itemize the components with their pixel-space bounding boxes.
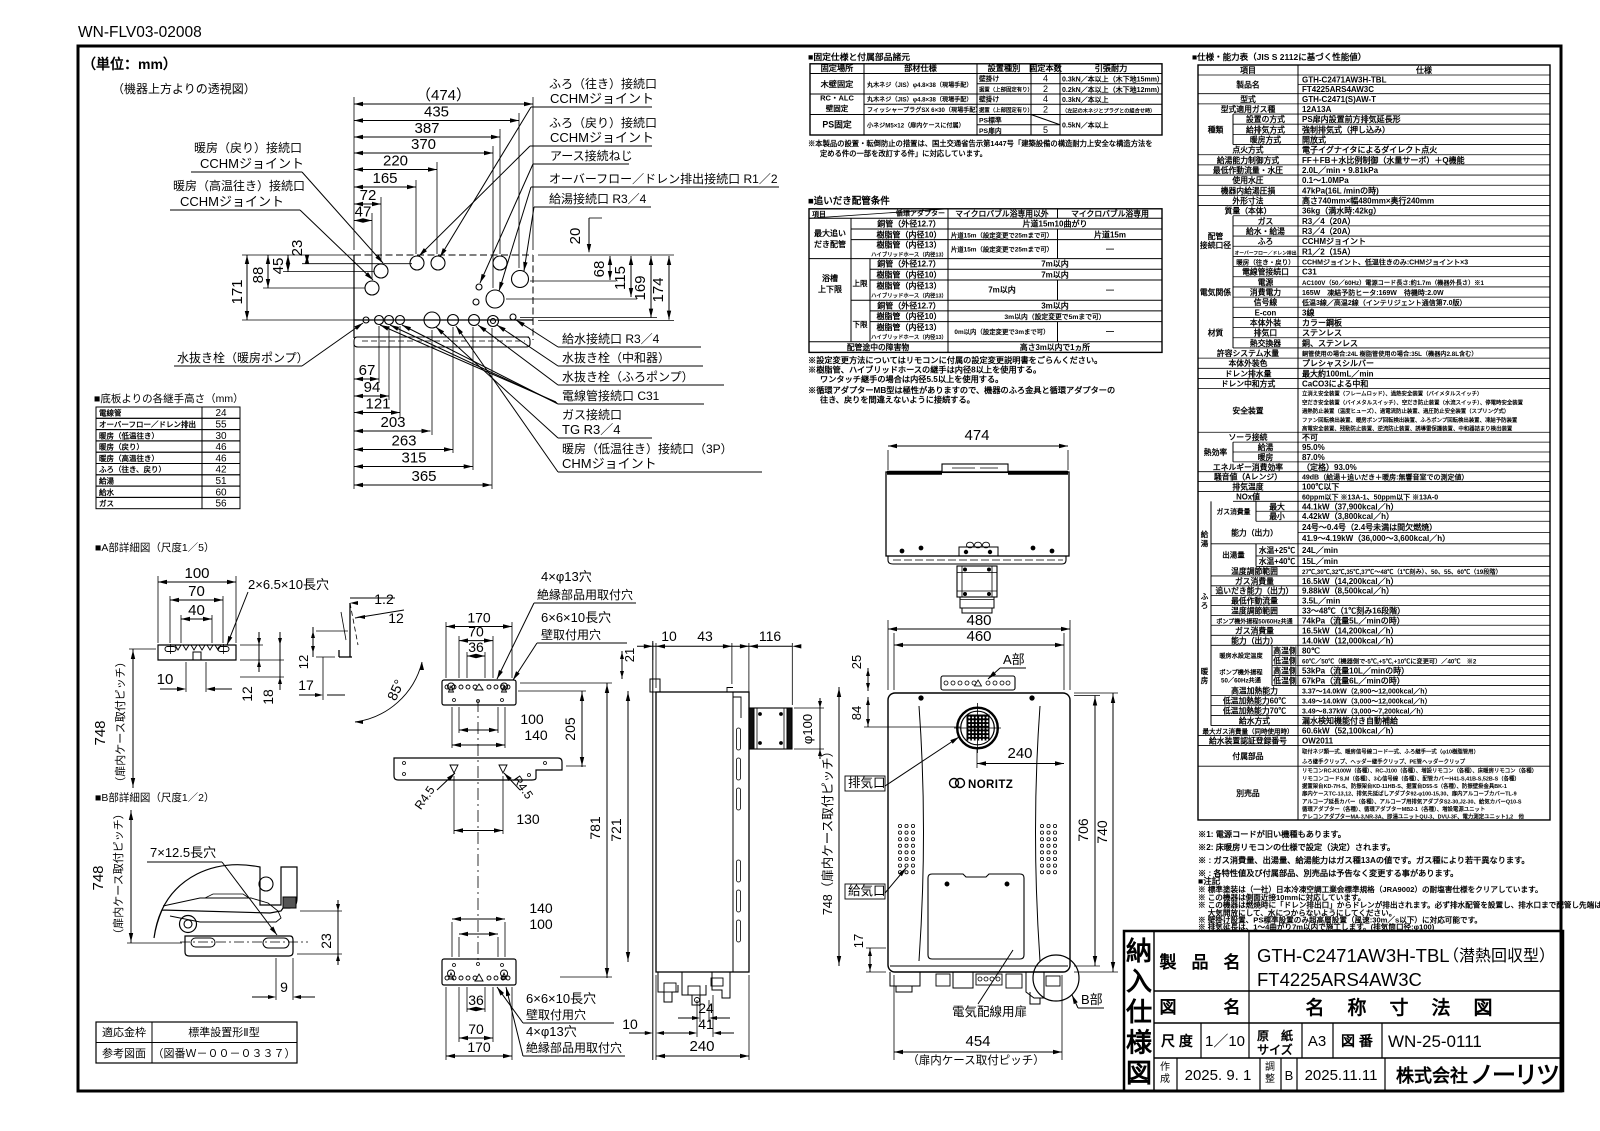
svg-text:種類: 種類 [1208,124,1224,134]
B-part centerline dashed [180,941,308,943]
svg-text:80℃: 80℃ [1302,646,1320,655]
svg-text:（単位：mm）: （単位：mm） [82,56,177,72]
svg-text:56: 56 [215,499,227,510]
svg-text:扉内ケースTC-13,12、排気先延ばしアダプタ92-φ10: 扉内ケースTC-13,12、排気先延ばしアダプタ92-φ100-15,30、扉内… [1302,790,1517,798]
svg-text:240: 240 [1007,745,1032,762]
svg-text:尺 度: 尺 度 [1161,1033,1194,1049]
svg-text:ガス: ガス [99,498,114,508]
svg-text:※ : 各特性値及び付属部品、別売品は予告なく変更する事があ: ※ : 各特性値及び付属部品、別売品は予告なく変更する事があります。 [1198,868,1458,878]
front view crease right [1036,706,1041,961]
leader low-temp port [456,326,558,472]
svg-text:7m以内: 7m以内 [988,284,1016,294]
front view exhaust fan [957,708,998,749]
svg-text:給湯: 給湯 [1258,442,1274,452]
height table [96,407,240,510]
B-part dim 9 [275,958,277,1000]
svg-text:70: 70 [468,1021,484,1037]
svg-text:暖房水設定温度: 暖房水設定温度 [1219,652,1263,660]
svg-text:748（扉内ケース取付ピッチ）: 748（扉内ケース取付ピッチ） [821,745,835,915]
dim 24 side [678,1017,696,1019]
svg-text:樹脂管（内径13）: 樹脂管（内径13） [877,240,942,250]
svg-text:電気配線用扉: 電気配線用扉 [952,1004,1027,1019]
leader 6x6x10 upper [513,643,537,680]
svg-text:10: 10 [622,1016,638,1032]
svg-text:16.5kW（14,200kcal／h）: 16.5kW（14,200kcal／h） [1302,576,1399,586]
upper bracket dims extensions [445,622,447,678]
svg-text:片道15m10曲がり: 片道15m10曲がり [1023,219,1088,229]
svg-text:最大追い: 最大追い [814,228,846,238]
svg-text:240: 240 [689,1038,714,1055]
B-part fin outline [154,865,297,938]
svg-text:748: 748 [92,720,109,745]
svg-text:参考図面: 参考図面 [102,1046,146,1060]
svg-text:A3: A3 [1308,1033,1326,1050]
front view unit outline [888,693,1070,972]
dim 205 vertical [581,691,583,767]
svg-text:上下限: 上下限 [818,284,842,294]
svg-text:絶縁部品用取付穴: 絶縁部品用取付穴 [537,587,633,602]
svg-text:最低作動流量: 最低作動流量 [1231,596,1278,606]
port hot water outlet (520,279) [512,271,529,288]
svg-text:給水装置認証登録番号: 給水装置認証登録番号 [1209,736,1287,746]
B-part base slots [191,938,215,947]
svg-text:25: 25 [849,655,864,669]
svg-text:36kg（満水時:42kg）: 36kg（満水時:42kg） [1302,206,1381,216]
svg-text:ドレン中和方式: ドレン中和方式 [1221,379,1276,389]
svg-text:68: 68 [591,261,608,278]
svg-text:140: 140 [524,727,548,743]
svg-text:40: 40 [188,602,205,619]
svg-text:ハイブリッドホース（内径13）: ハイブリッドホース（内径13） [871,333,947,341]
svg-text:GTH-C2471AW3H-TBL: GTH-C2471AW3H-TBL [1302,76,1387,85]
svg-text:暖房（往き・戻り）: 暖房（往き・戻り） [1236,258,1295,267]
svg-text:95.0%: 95.0% [1302,443,1325,452]
dim 84 front [867,697,869,727]
dimension 387 [354,120,500,139]
dim 480 front [887,620,889,690]
svg-text:能力（出力）: 能力（出力） [1231,635,1278,645]
side view bottom pipes [658,972,730,1005]
svg-text:24: 24 [698,1000,714,1016]
svg-text:WN-FLV03-02008: WN-FLV03-02008 [78,24,202,41]
upper bracket keyholes [448,683,455,692]
leader neutralizer [497,325,558,366]
svg-text:据置架台KD-7H-S、防振架台KD-11HB-S、据置台D: 据置架台KD-7H-S、防振架台KD-11HB-S、据置台D55-S（各種）、防… [1302,782,1507,790]
svg-text:■追いだき配管条件: ■追いだき配管条件 [808,195,890,207]
svg-text:100: 100 [529,916,553,932]
L-angle dim 1.2 [341,612,346,640]
svg-text:銅、ステンレス: 銅、ステンレス [1302,338,1358,348]
svg-text:電線管接続口 C31: 電線管接続口 C31 [562,388,660,403]
svg-text:42: 42 [215,465,227,476]
dim 36 upper [467,639,485,658]
svg-text:様: 様 [1126,1028,1153,1058]
svg-text:60.6kW（52,100kcal／h）: 60.6kW（52,100kcal／h） [1302,726,1399,736]
svg-text:23: 23 [289,240,306,257]
svg-text:最大: 最大 [1269,501,1285,511]
top view unit box [886,472,1069,556]
svg-text:アース接続ねじ: アース接続ねじ [550,148,633,163]
svg-text:項目: 項目 [812,209,826,218]
dim 70 lower [459,1021,493,1040]
svg-text:0m以内（設定変更で3mまで可）: 0m以内（設定変更で3mまで可） [954,327,1049,336]
A-part leader [988,668,1000,679]
svg-text:R3／4（20A）: R3／4（20A） [1302,216,1355,226]
svg-text:排気口: 排気口 [848,775,886,790]
svg-text:18: 18 [260,689,276,705]
dimension 220 [354,153,437,172]
svg-text:型式適用ガス種: 型式適用ガス種 [1221,104,1276,114]
svg-text:5: 5 [1043,125,1048,135]
port (474,320) [469,315,480,326]
svg-text:下限: 下限 [853,320,868,329]
svg-text:A部: A部 [1003,652,1025,667]
dim 130 [453,776,455,834]
svg-text:絶縁部品用取付穴: 絶縁部品用取付穴 [526,1040,622,1055]
svg-text:往き、戻りを間違えないように接続する。: 往き、戻りを間違えないように接続する。 [820,395,975,405]
svg-text:品: 品 [1192,953,1209,972]
B-part grommet circle [180,916,197,933]
tray dashed centerlines [362,340,525,342]
svg-text:ガス: ガス [1258,216,1274,226]
svg-text:10: 10 [661,628,677,644]
svg-text:熱効率: 熱効率 [1204,447,1228,457]
svg-text:60: 60 [215,487,227,498]
svg-text:壁取付用穴: 壁取付用穴 [526,1007,586,1022]
svg-text:100℃以下: 100℃以下 [1302,483,1339,492]
svg-text:接続口径: 接続口径 [1200,240,1231,250]
svg-text:（扉内ケース取付ピッチ）: （扉内ケース取付ピッチ） [111,808,125,939]
dimension 72 [354,187,381,206]
dim 240 front [976,748,978,768]
dim 41 side [675,1032,693,1034]
svg-text:205: 205 [562,717,578,741]
svg-text:67: 67 [359,362,376,379]
svg-text:暖房（高温往き）: 暖房（高温往き） [99,453,159,463]
B-part slot leader [222,862,277,935]
svg-text:74kPa（流量5L／minの時）: 74kPa（流量5L／minの時） [1302,615,1405,625]
product name row [1248,931,1250,1023]
svg-text:E-con: E-con [1255,308,1277,317]
L-angle dim 12 top [355,610,404,618]
leader 4xphi13 lower [506,987,523,1056]
svg-text:定める件の一部を改訂する件」に対応しています。: 定める件の一部を改訂する件」に対応しています。 [819,149,987,158]
svg-text:最小: 最小 [1269,511,1285,521]
svg-text:36: 36 [468,992,484,1008]
top view unit front edge [354,319,533,321]
svg-text:丸木ネジ（JIS）φ4.8×38（現場手配）: 丸木ネジ（JIS）φ4.8×38（現場手配） [866,81,972,89]
svg-text:固定本数: 固定本数 [1029,63,1063,73]
svg-text:マイクロバブル浴専用以外: マイクロバブル浴専用以外 [955,208,1049,218]
svg-text:24号～0.4号（2.4号未満は間欠燃焼）: 24号～0.4号（2.4号未満は間欠燃焼） [1302,522,1437,532]
svg-text:203: 203 [380,414,405,431]
svg-text:FF＋FB＋水比例制御（水量サーボ）＋Q機能: FF＋FB＋水比例制御（水量サーボ）＋Q機能 [1302,155,1465,165]
svg-text:配管途中の障害物: 配管途中の障害物 [847,342,910,352]
svg-text:33～48℃（1℃刻み16段階）: 33～48℃（1℃刻み16段階） [1302,605,1405,615]
svg-text:不可: 不可 [1302,433,1318,442]
svg-text:15L／min: 15L／min [1302,556,1338,566]
svg-text:47kPa(16L /minの時): 47kPa(16L /minの時) [1302,185,1379,195]
svg-text:CCHMジョイント: CCHMジョイント [180,194,284,209]
svg-text:作: 作 [1160,1061,1170,1073]
svg-text:CCHMジョイント: CCHMジョイント [550,91,654,106]
dimension 94 [354,379,389,398]
svg-text:100: 100 [184,565,209,582]
svg-text:（扉内ケース取付ピッチ）: （扉内ケース取付ピッチ） [907,1053,1044,1067]
svg-text:3m以内: 3m以内 [1041,300,1069,310]
title block frame [1124,931,1563,1091]
svg-text:低温側: 低温側 [1272,675,1297,685]
svg-text:別売品: 別売品 [1235,788,1260,798]
dim 100 upper [459,711,544,732]
NORITZ logo [950,779,1014,792]
svg-text:銅管（外径12.7）: 銅管（外径12.7） [877,300,941,310]
dims 36/70/170 below lower bracket [466,987,468,1012]
svg-text:電気関係: 電気関係 [1200,287,1231,297]
L-angle dim 17 [322,657,324,700]
svg-text:435: 435 [424,104,449,121]
extension lines right dims [538,254,674,256]
svg-text:入: 入 [1126,967,1152,997]
svg-text:高さ740mm×幅480mm×奥行240mm: 高さ740mm×幅480mm×奥行240mm [1302,195,1434,205]
svg-text:315: 315 [401,450,426,467]
svg-text:ハイブリッドホース（内径13）: ハイブリッドホース（内径13） [871,291,947,299]
svg-text:23: 23 [318,933,334,949]
svg-text:174: 174 [650,277,667,302]
svg-text:ふろ継手クリップ、ヘッダー継手クリップ、PE管ヘッダークリッ: ふろ継手クリップ、ヘッダー継手クリップ、PE管ヘッダークリップ [1302,758,1466,766]
spec table footnotes [1198,829,1600,932]
svg-text:許容システム水量: 許容システム水量 [1217,348,1279,358]
A-part dim 12/18 right [240,644,263,646]
port water supply big (495,299) [486,290,504,308]
svg-text:項目: 項目 [1240,66,1256,75]
svg-text:過熱防止装置（温度ヒューズ）、過電流防止装置、過圧防止安全装: 過熱防止装置（温度ヒューズ）、過電流防止装置、過圧防止安全装置（スプリング式） [1301,407,1509,415]
dim 25 front [867,668,869,691]
svg-text:88: 88 [250,267,267,284]
svg-text:調: 調 [1265,1060,1275,1073]
title block row lines [1154,990,1563,992]
svg-text:ワンタッチ継手の場合は内径5.5以上を使用する。: ワンタッチ継手の場合は内径5.5以上を使用する。 [820,374,1003,384]
leader 4xphi13 upper [497,603,534,679]
svg-text:暖房（高温往き）接続口: 暖房（高温往き）接続口 [173,178,305,193]
dimension 67 [354,362,379,381]
svg-text:外形寸法: 外形寸法 [1231,195,1263,205]
svg-text:46: 46 [215,442,227,453]
side view back rail profile [732,692,734,972]
leader earth screw [480,164,546,283]
dimension 171 [229,255,249,320]
svg-text:ファン回転検出装置、暖房ポンプ回転検出装置、ふろポンプ回転検: ファン回転検出装置、暖房ポンプ回転検出装置、ふろポンプ回転検出装置、凍結予防装置 [1302,416,1518,424]
leader water supply [516,320,558,347]
dim 36 lower [467,992,485,1011]
svg-text:温度調節範囲: 温度調節範囲 [1231,605,1278,615]
svg-text:36: 36 [468,639,484,655]
svg-text:高温加熱能力: 高温加熱能力 [1231,685,1278,695]
svg-text:固定場所: 固定場所 [821,63,855,73]
dim 140 upper [452,727,548,747]
svg-text:41: 41 [698,1016,714,1032]
svg-text:材質: 材質 [1207,328,1224,338]
svg-text:電線管接続口: 電線管接続口 [1242,267,1289,277]
svg-text:116: 116 [759,628,782,644]
svg-text:名: 名 [1224,952,1241,972]
electrical door [928,874,1024,959]
leader overflow [499,187,546,291]
svg-text:454: 454 [965,1033,990,1050]
svg-text:12: 12 [296,655,311,669]
R4.5 right leader [504,773,520,790]
svg-text:立消え安全装置（フレームロッド）、過熱安全装置（バイメタルス: 立消え安全装置（フレームロッド）、過熱安全装置（バイメタルスイッチ） [1302,390,1482,398]
date row [1176,1058,1178,1091]
svg-text:水温+25℃: 水温+25℃ [1259,545,1296,555]
A-part bracket body [158,645,236,660]
svg-text:※循環アダプターMB型は極性がありますので、機器のふろ金具と: ※循環アダプターMB型は極性がありますので、機器のふろ金具と循環アダプターの [808,385,1115,395]
A-part dim 10 [185,662,187,692]
svg-text:CCHMジョイント: CCHMジョイント [550,130,654,145]
leader bath pump plug [478,325,558,385]
port heating return CCHM (381,271) [374,264,388,278]
svg-text:低温加熱能力60℃: 低温加熱能力60℃ [1222,695,1286,705]
svg-text:高温側: 高温側 [1273,645,1297,655]
svg-text:銅管使用の場合:24L 樹脂管使用の場合:35L（機器内2.: 銅管使用の場合:24L 樹脂管使用の場合:35L（機器内2.8L含む） [1302,350,1478,358]
dim 70 upper [459,624,493,643]
svg-text:20: 20 [567,228,584,245]
svg-text:■仕様・能力表（JIS S 2112に基づく性能値）: ■仕様・能力表（JIS S 2112に基づく性能値） [1192,52,1366,62]
top view dim 474 [887,450,889,470]
top view flange [888,556,1066,564]
svg-text:―: ― [1106,285,1114,294]
svg-text:―: ― [1106,245,1114,254]
dim 460 [894,628,1064,647]
leader bath return [419,146,546,256]
svg-text:マイクロバブル浴専用: マイクロバブル浴専用 [1071,208,1149,218]
svg-text:0.5kN／本以上: 0.5kN／本以上 [1062,121,1109,130]
svg-text:60ppm以下 ※13A-1、50ppm以下 ※13A-0: 60ppm以下 ※13A-1、50ppm以下 ※13A-0 [1302,493,1438,501]
dim 706 front [1074,695,1100,697]
svg-text:給水接続口 R3／4: 給水接続口 R3／4 [562,331,660,346]
svg-text:CCHMジョイント: CCHMジョイント [200,156,304,171]
svg-text:■B部詳細図（尺度1／2）: ■B部詳細図（尺度1／2） [95,791,215,804]
svg-text:41.9～4.19kW（36,000～3,600kcal／h: 41.9～4.19kW（36,000～3,600kcal／h） [1302,533,1450,543]
dimension 45 [270,255,290,274]
svg-text:47: 47 [355,204,372,221]
svg-text:50／60Hz共通: 50／60Hz共通 [1221,676,1262,684]
svg-text:壁掛け: 壁掛け [979,95,1000,104]
svg-text:（左記の木ネジとプラグとの組合せ時）: （左記の木ネジとプラグとの組合せ時） [1062,107,1155,115]
dim 240 side [656,1038,749,1058]
L-angle vertical leg [349,603,351,657]
A-part dim 40 [181,602,212,621]
dimension 47 [354,204,372,223]
gas port (432,320) [424,312,440,328]
svg-text:84: 84 [849,706,864,720]
svg-text:温度調節範囲: 温度調節範囲 [1231,566,1278,576]
dim 480 [888,612,1070,631]
svg-text:給湯接続口 R3／4: 給湯接続口 R3／4 [549,191,647,206]
svg-text:94: 94 [364,379,381,396]
svg-text:銅管（外径12.7）: 銅管（外径12.7） [877,259,941,269]
svg-text:給水方式: 給水方式 [1239,716,1270,726]
side view unit body [656,692,749,972]
dimension (474) [354,87,533,106]
svg-text:115: 115 [612,266,629,290]
svg-text:70: 70 [468,624,484,640]
svg-text:壁固定: 壁固定 [826,103,849,113]
svg-text:■A部詳細図（尺度1／5）: ■A部詳細図（尺度1／5） [95,541,215,554]
svg-text:樹脂管（内径10）: 樹脂管（内径10） [877,269,942,279]
svg-text:2: 2 [1043,105,1048,115]
svg-text:―: ― [1106,327,1114,336]
upper hanger bracket body [442,680,516,705]
svg-text:追いだき能力（出力）: 追いだき能力（出力） [1216,586,1294,596]
svg-text:アルコーブ延長カバー（各種）、アルコーブ用排気アダプタS2-: アルコーブ延長カバー（各種）、アルコーブ用排気アダプタS2-30,J2-30、給… [1302,797,1522,805]
svg-text:※樹脂管、ハイブリッドホースの継手は内径8以上を使用する。: ※樹脂管、ハイブリッドホースの継手は内径8以上を使用する。 [808,365,1041,375]
svg-text:低温側: 低温側 [1272,655,1297,665]
side view top bracket tab [650,679,660,692]
svg-text:安全装置: 安全装置 [1232,405,1263,415]
dim 454 [894,1033,1062,1054]
svg-text:配管: 配管 [1208,231,1224,241]
svg-text:ソーラ接続: ソーラ接続 [1229,432,1268,442]
svg-text:木壁固定: 木壁固定 [820,79,855,89]
svg-text:121: 121 [365,396,390,413]
dimension 174 [650,256,671,320]
svg-text:暖房方式: 暖房方式 [1250,134,1281,144]
svg-text:※本製品の設置・転倒防止の措置は、国土交通省告示第1447号: ※本製品の設置・転倒防止の措置は、国土交通省告示第1447号「建築設備の構造耐力… [808,139,1153,148]
svg-text:本体外装色: 本体外装色 [1229,358,1268,368]
svg-text:ガス消費量: ガス消費量 [1235,576,1274,586]
B-part circle [1033,955,1079,1001]
svg-text:信号線: 信号線 [1254,297,1278,307]
svg-text:熱交換器: 熱交換器 [1250,338,1281,348]
svg-text:140: 140 [529,900,553,916]
svg-text:60℃／50℃（機器側で-5℃,+5℃,+10℃に変更可）／: 60℃／50℃（機器側で-5℃,+5℃,+10℃に変更可）／40℃ ※2 [1302,657,1477,665]
svg-text:オーバーフロー／ドレン排出: オーバーフロー／ドレン排出 [1234,249,1296,256]
svg-text:排気温度: 排気温度 [1232,482,1263,492]
svg-text:0.1～1.0MPa: 0.1～1.0MPa [1302,176,1349,185]
top view exhaust collar [957,566,997,597]
svg-text:9: 9 [280,979,288,995]
svg-text:水温+40℃: 水温+40℃ [1259,556,1296,566]
leader bath supply [440,107,546,257]
svg-text:能力（出力）: 能力（出力） [1231,528,1278,538]
svg-text:ふ: ふ [1201,592,1209,601]
svg-text:3線: 3線 [1302,307,1314,317]
svg-text:取付ネジ類一式、暖房信号線コード一式、ふろ継手一式（φ10樹: 取付ネジ類一式、暖房信号線コード一式、ふろ継手一式（φ10樹脂管用） [1302,747,1479,755]
svg-text:名 称 寸 法 図: 名 称 寸 法 図 [1305,996,1494,1019]
svg-text:10: 10 [157,671,174,688]
phi100 dim [794,707,824,709]
svg-text:21: 21 [622,648,637,662]
svg-text:本体外装: 本体外装 [1250,318,1281,328]
svg-text:テレコンアダプターMA-3,NR-3A、即湯ユニットQU-3: テレコンアダプターMA-3,NR-3A、即湯ユニットQU-3、DVU-3F、電力… [1302,813,1525,821]
svg-text:原 紙: 原 紙 [1257,1028,1293,1043]
svg-text:12A13A: 12A13A [1302,105,1332,114]
svg-text:出湯量: 出湯量 [1222,550,1245,560]
svg-text:リモコンコードS,M（各種）、3心信号線（各種）、配管カバー: リモコンコードS,M（各種）、3心信号線（各種）、配管カバーH41-S,41B-… [1302,774,1520,782]
port (453,320) [448,315,459,326]
svg-text:部材仕様: 部材仕様 [904,63,938,73]
A-part slot holes [165,647,176,652]
front view inner bottom line [890,965,1068,967]
svg-text:740: 740 [1094,820,1110,844]
svg-text:17: 17 [851,934,866,948]
svg-text:PS扉内設置前方排気延長形: PS扉内設置前方排気延長形 [1302,114,1401,124]
svg-text:開放式: 開放式 [1302,134,1326,144]
svg-text:12: 12 [388,610,404,626]
front view top screws [919,696,923,700]
dim 170 lower [446,1039,512,1058]
